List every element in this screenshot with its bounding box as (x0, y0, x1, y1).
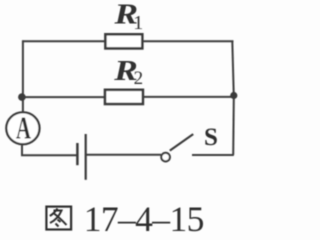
svg-text:17–4–15: 17–4–15 (84, 199, 204, 239)
resistor R1 (105, 34, 142, 48)
svg-text:2: 2 (134, 68, 144, 89)
node B junction dot (230, 92, 237, 99)
wire bottom-right rail (192, 154, 234, 156)
wire ammeter to bottom rail (21, 144, 23, 155)
svg-text:1: 1 (133, 12, 143, 34)
wire R2 right lead to node B (143, 96, 234, 98)
label R2 (113, 54, 143, 89)
caption character 图 (46, 207, 71, 230)
wire top-right (R1 right lead to node B) (142, 40, 233, 42)
wire left vertical (22, 40, 24, 112)
wire right vertical (232, 41, 234, 155)
node A junction dot (18, 93, 26, 101)
ammeter A1 (6, 112, 39, 144)
switch S pivot (161, 153, 170, 162)
label R1 (113, 0, 143, 34)
resistor R2 (105, 90, 143, 104)
battery BT1 long plate (positive) (85, 134, 87, 180)
wire bottom-left rail (21, 154, 77, 156)
ammeter letter A (16, 110, 31, 146)
wire node A to R2 left lead (22, 96, 106, 98)
svg-text:A: A (16, 110, 31, 146)
battery BT1 short plate (negative) (76, 143, 79, 165)
caption text 17-4-15 (84, 199, 204, 239)
svg-text:S: S (204, 124, 218, 151)
wire top-left (node A to R1 left lead) (23, 40, 106, 42)
switch S lever (170, 134, 193, 151)
label S (204, 124, 218, 151)
wire battery to switch (86, 154, 162, 156)
